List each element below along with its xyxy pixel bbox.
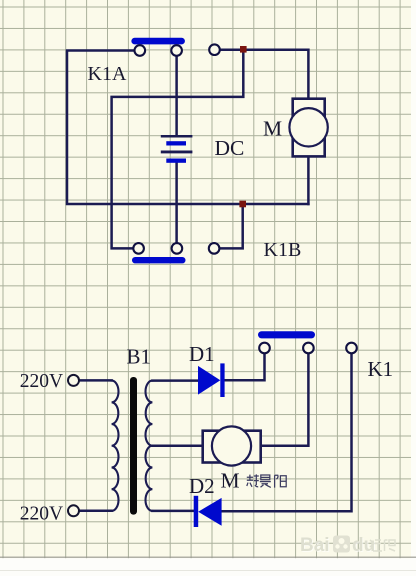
svg-text:Bai: Bai	[300, 535, 330, 556]
svg-text:K1: K1	[368, 357, 394, 381]
svg-text:M: M	[221, 468, 240, 492]
svg-text:DC: DC	[215, 136, 245, 160]
svg-text:220V: 220V	[20, 371, 63, 392]
svg-text:K1A: K1A	[88, 63, 127, 85]
svg-text:D2: D2	[189, 474, 215, 498]
svg-text:D1: D1	[189, 342, 215, 366]
svg-text:M: M	[263, 116, 282, 140]
svg-text:K1B: K1B	[264, 239, 302, 261]
svg-text:B1: B1	[127, 345, 152, 369]
svg-text:220V: 220V	[20, 504, 63, 525]
